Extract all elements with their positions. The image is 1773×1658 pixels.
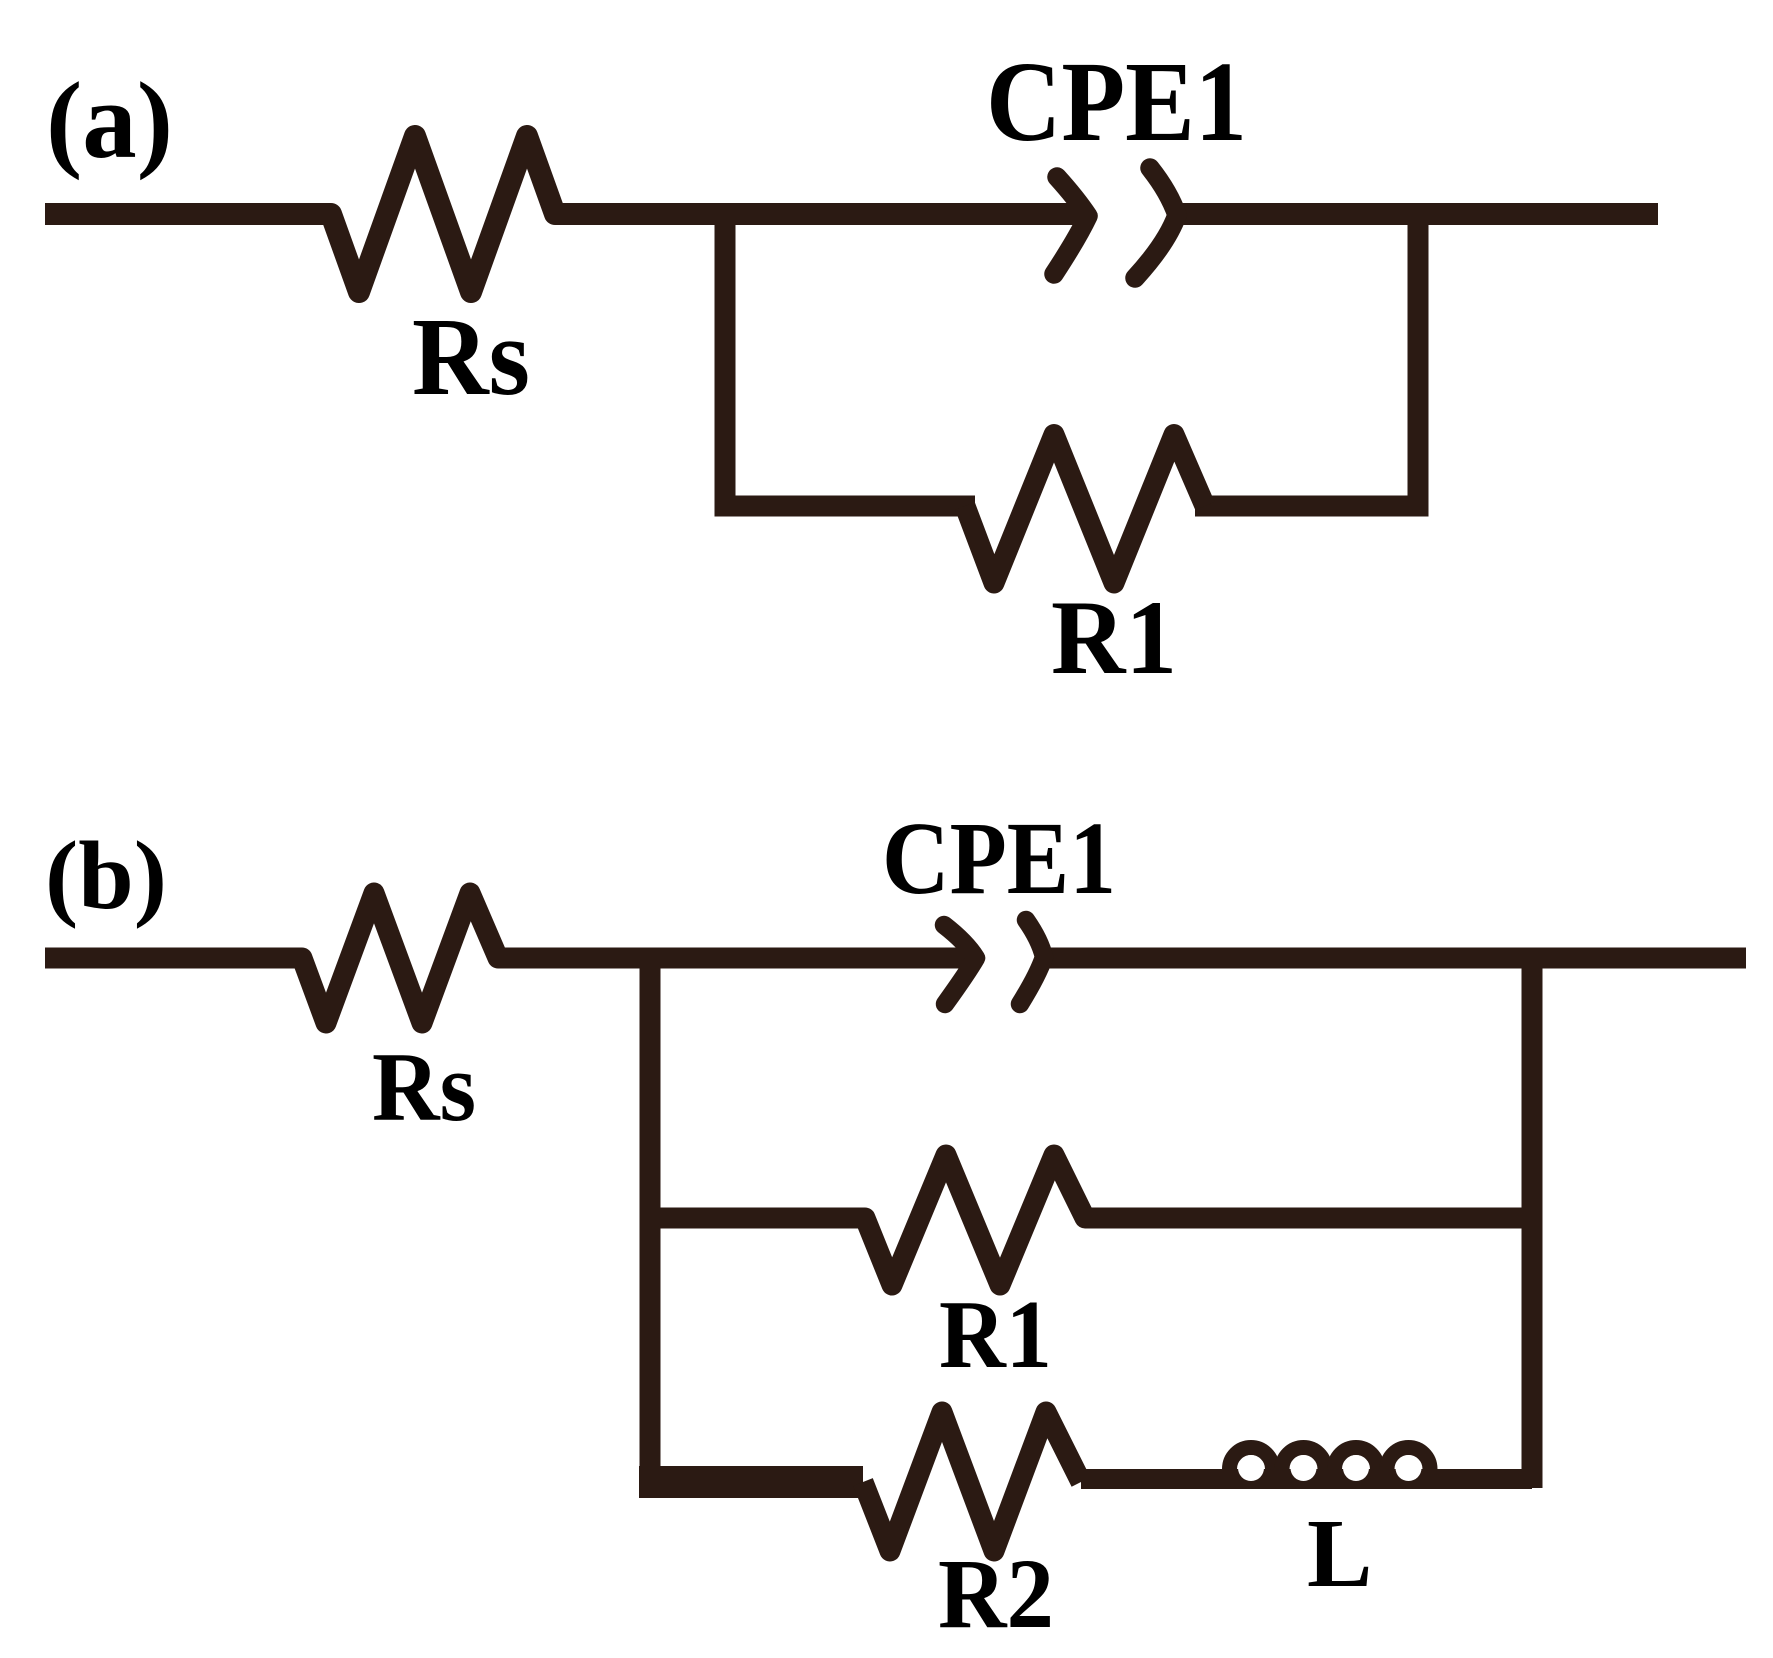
svg-text:R2: R2 bbox=[938, 1538, 1054, 1649]
svg-text:R1: R1 bbox=[1051, 579, 1177, 696]
svg-text:(a): (a) bbox=[46, 60, 173, 181]
svg-text:(b): (b) bbox=[45, 822, 167, 929]
svg-text:R1: R1 bbox=[939, 1281, 1052, 1388]
svg-text:Rs: Rs bbox=[412, 296, 530, 419]
svg-text:Rs: Rs bbox=[372, 1033, 476, 1142]
svg-text:CPE1: CPE1 bbox=[986, 38, 1247, 165]
svg-text:CPE1: CPE1 bbox=[882, 801, 1116, 916]
svg-text:L: L bbox=[1307, 1500, 1372, 1608]
